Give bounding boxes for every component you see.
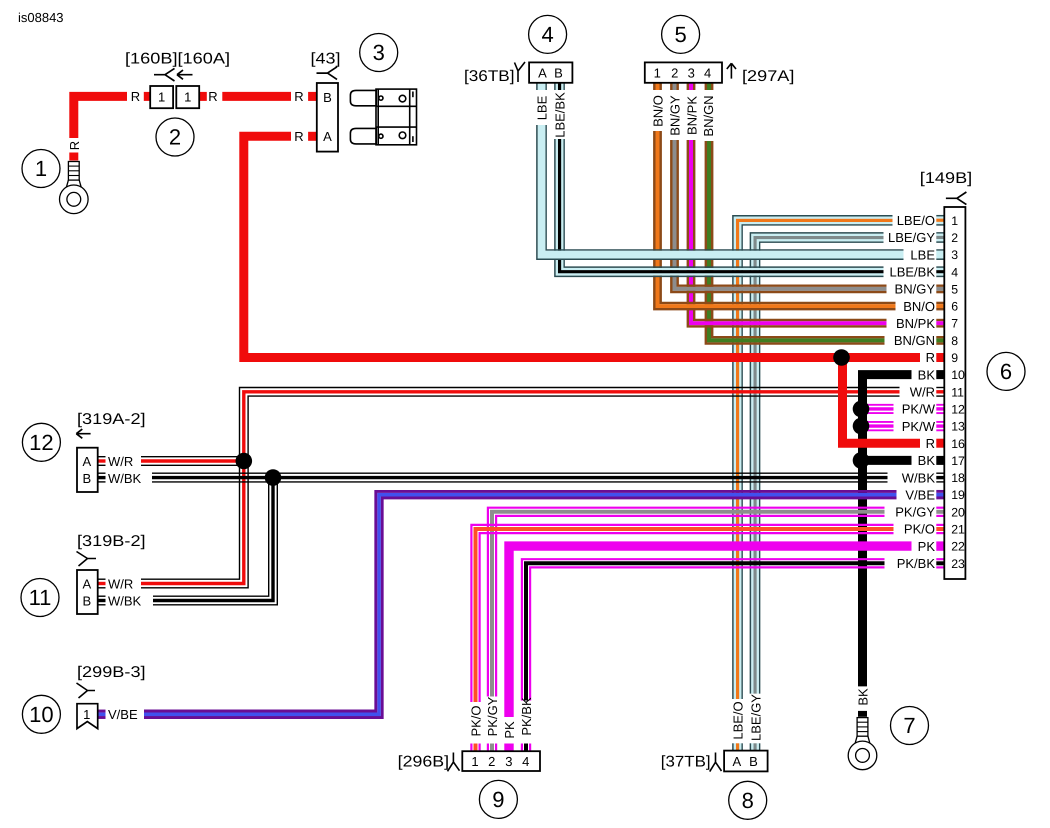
fork symbol [37TB] [710,753,722,772]
svg-text:A: A [732,754,741,769]
pin stub PK/BK at [296B]-4 [522,744,530,752]
wire W/R branch from [319A-2]-A [141,457,248,466]
connector [43] [317,83,338,152]
pin stub R at [160A] [199,92,207,101]
wire PK/W to pin 13 [861,422,894,430]
svg-text:[149B]: [149B] [920,170,972,187]
pin stub BN/PK at [297A]-3 [688,83,694,90]
svg-text:W/R: W/R [108,454,133,469]
svg-text:PK/GY: PK/GY [485,696,500,736]
ring terminal 1 [60,162,89,214]
svg-text:11: 11 [29,585,52,610]
svg-text:A: A [538,66,547,81]
svg-text:23: 23 [951,557,965,571]
wire W/R pin 11 to [319B-2]-A [141,388,900,588]
fork symbol [299B-3] [77,683,96,698]
svg-text:12: 12 [951,402,965,416]
pin stub V/BE at [299B-3] [98,711,106,718]
svg-text:3: 3 [688,66,695,81]
svg-text:BN/GY: BN/GY [895,282,936,297]
callout 7 [891,707,929,745]
connector [296B] [462,751,540,771]
svg-text:17: 17 [951,454,965,468]
svg-text:4: 4 [541,22,553,47]
svg-text:R: R [131,89,140,104]
pin stub PK/W pin 13 [936,422,944,430]
svg-text:2: 2 [169,125,181,150]
svg-text:[296B]: [296B] [398,754,449,771]
svg-text:LBE/O: LBE/O [897,213,935,228]
svg-text:4: 4 [522,754,529,769]
svg-text:21: 21 [951,523,965,537]
pin stub PK/O at [296B]-1 [471,744,479,752]
arrow symbol [160A] [177,70,193,79]
pin stub LBE/O at [37TB]-A [733,743,742,750]
fork symbol [36TB] [515,62,526,82]
svg-text:3: 3 [373,40,385,65]
connector [149B] [944,207,965,579]
svg-text:7: 7 [951,317,958,331]
pin stub PK at [296B]-3 [504,744,513,752]
svg-text:1: 1 [184,90,191,105]
svg-text:2: 2 [951,231,958,245]
pin stub W/BK pin 18 [936,473,944,482]
wire LBE/O pin 1 to [37TB]-A [733,216,893,699]
svg-text:BN/GN: BN/GN [894,333,935,348]
wire BK pin 17 [863,456,912,465]
socket symbol [160B] [154,68,175,81]
svg-text:9: 9 [951,351,958,365]
pin stub BN/GY at [297A]-2 [671,83,677,90]
pin stub R pin 9 [936,353,944,362]
wire BN/GN from [297A]-4 to pin 8 [706,141,885,344]
svg-text:B: B [323,90,332,105]
wire BK pin 10 down to ground ring [863,375,912,687]
wire PK pin 22 to [296B]-3 [509,546,912,717]
svg-text:LBE/GY: LBE/GY [749,694,764,741]
svg-text:W/R: W/R [108,576,133,591]
svg-text:R: R [208,89,217,104]
svg-text:R: R [294,129,303,144]
junction BK to PK/W pin 13 [853,418,870,435]
svg-text:[37TB]: [37TB] [661,754,711,771]
callout 6 [987,352,1025,390]
svg-text:2: 2 [671,66,678,81]
pin stub PK/GY at [296B]-2 [488,744,496,752]
svg-text:11: 11 [951,385,964,399]
svg-text:V/BE: V/BE [108,707,138,722]
wire R from [43]-A to pin 9 [244,136,920,357]
svg-text:B: B [554,66,563,81]
svg-text:B: B [82,593,91,608]
connector [299B-3] splice [77,704,98,729]
svg-text:[43]: [43] [311,51,341,68]
svg-text:[319B-2]: [319B-2] [77,533,146,550]
wire LBE/GY pin 2 to [37TB]-B [750,233,883,694]
svg-text:W/BK: W/BK [108,593,142,608]
svg-text:LBE/GY: LBE/GY [888,230,935,245]
pin stub R pin 16 [936,439,944,448]
wire PK/W to pin 12 [861,405,894,413]
pin stub R at [43]-A [308,132,317,141]
svg-text:B: B [749,754,758,769]
wire R stub to ring terminal 1 [69,153,78,161]
svg-text:A: A [323,129,332,144]
wire LBE from [36TB]-A to pin 3 [537,125,904,259]
svg-text:W/R: W/R [910,385,935,400]
svg-text:16: 16 [951,437,965,451]
svg-text:5: 5 [674,22,686,47]
svg-text:19: 19 [951,488,965,502]
pin stub BN/GN pin 8 [936,337,944,343]
callout 10 [22,695,60,733]
svg-text:6: 6 [951,300,958,314]
svg-text:PK: PK [918,539,936,554]
fork symbol [296B] [448,753,460,772]
svg-text:6: 6 [1000,359,1012,384]
wire W/BK branch to [319B-2]-B [153,478,277,605]
connector [319A-2] [77,448,98,492]
callout 5 [662,15,700,53]
pin stub R at [160B] [144,92,150,101]
pin stub PK pin 22 [936,541,944,550]
svg-text:7: 7 [903,713,915,738]
socket symbol [149B] [946,192,967,205]
svg-text:8: 8 [742,788,754,813]
svg-text:BN/GY: BN/GY [668,95,683,136]
pin stub W/BK at [319A-2]-B [98,473,106,482]
svg-text:1: 1 [158,90,165,105]
svg-text:13: 13 [951,420,965,434]
svg-text:PK/O: PK/O [904,522,935,537]
wire BN/PK from [297A]-3 to pin 7 [688,140,887,326]
arrow symbol [319A-2] [76,429,90,438]
wire R branch to pin 16 [843,358,921,444]
svg-text:PK/W: PK/W [902,419,936,434]
connector [36TB] [529,62,572,82]
svg-text:LBE/O: LBE/O [731,701,746,739]
pin stub V/BE pin 19 [936,491,944,498]
pin stub BN/GN at [297A]-4 [706,83,712,90]
wire PK/GY pin 20 to [296B]-2 [488,508,885,697]
arrow symbol [297A] [727,63,736,78]
connector [37TB] [724,751,768,772]
ring terminal ground [848,718,877,770]
svg-text:BK: BK [856,688,871,706]
svg-text:20: 20 [951,505,965,519]
svg-text:1: 1 [654,66,661,81]
svg-text:BN/PK: BN/PK [685,96,700,135]
svg-text:3: 3 [951,248,958,262]
callout 2 [156,118,194,156]
wire BN/GY from [297A]-2 to pin 5 [671,140,886,292]
svg-text:V/BE: V/BE [905,487,935,502]
svg-text:9: 9 [492,787,504,812]
pin stub W/R at [319B-2]-A [98,579,106,588]
pin stub W/R at [319A-2]-A [98,457,106,466]
svg-text:5: 5 [951,282,958,296]
junction BK to PK/W pin 12 [853,401,870,418]
wire BK stub to ring terminal [858,711,867,717]
junction BK pin 17 [853,452,870,469]
svg-text:4: 4 [951,265,958,279]
svg-text:A: A [82,576,91,591]
svg-text:10: 10 [29,702,53,727]
svg-text:LBE: LBE [535,95,550,120]
pin stub BN/O pin 6 [936,303,944,309]
callout 1 [22,150,60,188]
svg-text:22: 22 [951,540,965,554]
svg-text:[297A]: [297A] [742,68,794,85]
svg-text:BN/PK: BN/PK [896,316,935,331]
wire V/BE pin 19 to [299B-3] [144,491,897,717]
svg-text:R: R [294,89,303,104]
wire PK/BK pin 23 to [296B]-4 [522,559,885,700]
svg-text:3: 3 [505,754,512,769]
svg-text:A: A [82,454,91,469]
svg-text:BN/O: BN/O [651,95,666,127]
svg-text:R: R [926,436,935,451]
svg-text:1: 1 [83,707,90,722]
svg-text:PK: PK [502,721,517,739]
wire R from ring terminal up to [160B] [74,96,127,138]
junction W/R [236,453,253,470]
junction R [833,349,850,366]
callout 4 [529,15,567,53]
callout 8 [729,781,767,819]
svg-text:PK/GY: PK/GY [895,505,935,520]
pin stub LBE/GY pin 2 [936,233,944,242]
pin stub BN/PK pin 7 [936,320,944,326]
svg-text:[36TB]: [36TB] [464,68,515,85]
callout 11 [21,579,59,617]
svg-text:1: 1 [471,754,478,769]
svg-text:B: B [82,471,91,486]
svg-text:PK/BK: PK/BK [897,556,936,571]
pin stub LBE/BK at [36TB]-B [555,83,564,90]
svg-text:[160B][160A]: [160B][160A] [125,51,230,68]
pin stub PK/GY pin 20 [936,508,944,516]
wire W/BK from [319A-2]-B to pin 18 [152,473,888,482]
svg-text:PK/BK: PK/BK [519,697,534,736]
connector [160B] pin 1 [150,86,173,108]
pin stub W/BK at [319B-2]-B [98,596,106,605]
svg-text:is08843: is08843 [18,10,64,25]
svg-text:1: 1 [951,214,958,228]
pin stub R at [43]-B [308,92,317,101]
connector [160A] pin 1 [176,86,199,108]
svg-text:R: R [67,141,82,150]
svg-text:18: 18 [951,471,965,485]
svg-text:12: 12 [29,430,53,455]
socket symbol [43] [317,67,338,80]
pin stub PK/BK pin 23 [936,559,944,567]
svg-text:W/BK: W/BK [108,471,142,486]
svg-text:BK: BK [918,367,936,382]
svg-text:2: 2 [488,754,495,769]
pin stub LBE/BK pin 4 [936,267,944,276]
pin stub LBE at [36TB]-A [537,83,546,90]
wire PK/O pin 21 to [296B]-1 [471,525,893,702]
callout 12 [22,423,60,461]
connector [297A] [645,62,722,82]
svg-text:BN/O: BN/O [903,299,935,314]
fuse symbol (circuit breaker) [350,89,416,145]
pin stub W/R pin 11 [936,388,944,397]
svg-text:8: 8 [951,334,958,348]
wire LBE/BK from [36TB]-B to pin 4 [555,139,884,276]
pin stub BK pin 17 [936,456,944,465]
svg-text:LBE: LBE [910,247,935,262]
pin stub BK pin 10 [936,370,944,379]
pin stub PK/W pin 12 [936,405,944,413]
svg-text:R: R [926,350,935,365]
svg-text:10: 10 [951,368,965,382]
svg-text:LBE/BK: LBE/BK [889,264,935,279]
svg-text:[299B-3]: [299B-3] [77,664,146,681]
pin stub BN/GY pin 5 [936,286,944,292]
svg-text:[319A-2]: [319A-2] [77,411,146,428]
callout 9 [479,780,517,818]
svg-text:BK: BK [918,453,936,468]
svg-text:1: 1 [35,156,47,181]
svg-text:LBE/BK: LBE/BK [553,92,568,138]
svg-text:W/BK: W/BK [902,470,936,485]
fork symbol [319B-2] [77,552,97,567]
connector [319B-2] [77,570,98,614]
junction W/BK [265,469,282,486]
wire BN/O from [297A]-1 to pin 6 [654,131,895,309]
svg-text:PK/W: PK/W [902,402,936,417]
svg-text:BN/GN: BN/GN [701,95,716,136]
pin stub LBE/GY at [37TB]-B [750,743,759,750]
pin stub LBE/O pin 1 [936,216,944,225]
svg-text:4: 4 [704,66,711,81]
callout 3 [360,34,398,72]
pin stub PK/O pin 21 [936,525,944,533]
pin stub LBE pin 3 [936,250,944,259]
svg-text:PK/O: PK/O [469,705,484,736]
wire R from [160A] to [43]-B [222,92,291,101]
pin stub BN/O at [297A]-1 [654,83,660,90]
